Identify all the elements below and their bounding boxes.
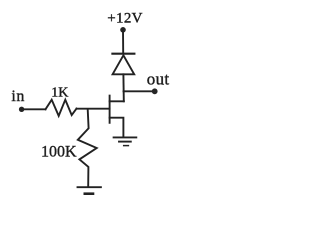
- resistor R1 1K zigzag: [46, 100, 77, 116]
- diode D1 anode triangle: [113, 55, 135, 74]
- svg-text:out: out: [147, 70, 170, 89]
- svg-text:1K: 1K: [51, 85, 68, 100]
- node out terminal dot: [152, 88, 158, 94]
- svg-text:+12V: +12V: [107, 11, 143, 27]
- wire junction stem and resistor R2 100K zigzag: [78, 109, 97, 186]
- svg-text:in: in: [11, 88, 24, 105]
- wire from in terminal to resistor R1: [22, 108, 46, 110]
- ground at Q1 source: [114, 137, 137, 145]
- transistor Q1 channel bar: [109, 96, 111, 123]
- wire drain lead of Q1: [110, 100, 124, 102]
- wire source lead of Q1: [110, 118, 124, 137]
- ground at resistor R2 bottom: [78, 187, 101, 194]
- svg-text:100K: 100K: [41, 143, 77, 160]
- wire out node horizontal: [124, 90, 155, 92]
- wire from +12V terminal down to diode cathode: [122, 30, 124, 53]
- node +12V terminal dot: [120, 27, 126, 33]
- diode D1 cathode bar: [112, 53, 134, 55]
- wire from resistor R1 to Q1 gate: [77, 108, 110, 110]
- wire from diode anode down to drain junction: [122, 74, 124, 101]
- node in terminal dot: [19, 107, 24, 112]
